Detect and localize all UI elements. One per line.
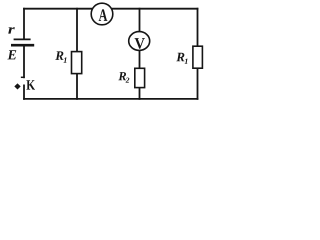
battery cell: long thick plate — [11, 44, 34, 47]
label E (emf) — [7, 50, 16, 59]
wire right branch lower — [197, 68, 199, 99]
voltmeter U-V ellipse — [129, 32, 150, 51]
ammeter letter A — [99, 9, 108, 21]
wire left branch lower (switch to bottom) — [23, 85, 25, 99]
label R1 right — [176, 53, 184, 62]
wire bottom — [24, 98, 198, 100]
wire left branch middle (battery to switch) — [23, 46, 25, 77]
switch K contact tick — [22, 76, 24, 78]
label R2 — [118, 72, 126, 80]
wire left branch upper (to battery) — [23, 9, 25, 39]
wire top left segment — [24, 8, 91, 10]
wire right branch upper — [197, 9, 199, 47]
resistor R1 left box — [72, 52, 82, 74]
wire branch R2 lower — [139, 88, 141, 99]
ammeter U-A circle — [91, 3, 113, 25]
switch K pivot dot — [15, 84, 20, 89]
label R1 left — [55, 51, 63, 60]
resistor R1 right box — [193, 46, 203, 68]
wire voltmeter to R2 — [139, 50, 141, 68]
wire branch R1-left upper — [76, 9, 78, 52]
wire top right segment — [113, 8, 198, 10]
resistor R2 box — [135, 68, 145, 87]
wire branch voltmeter upper — [139, 9, 141, 32]
wire branch R1-left lower — [76, 74, 78, 99]
label r (internal resistance) — [8, 27, 15, 33]
battery cell: short plate — [14, 38, 31, 40]
label K (switch) — [26, 80, 35, 89]
voltmeter letter V — [135, 38, 145, 49]
